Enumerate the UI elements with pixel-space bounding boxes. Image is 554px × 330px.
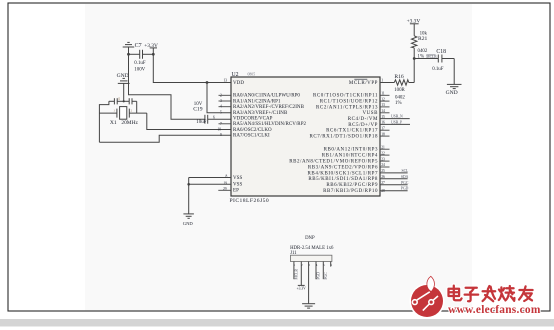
svg-text:7: 7: [220, 122, 222, 126]
svg-text:RA0/AN0/C1INA/ULPWU/RP0: RA0/AN0/C1INA/ULPWU/RP0: [233, 94, 300, 99]
svg-text:RA3/AN3/VREF+/C1INB: RA3/AN3/VREF+/C1INB: [233, 111, 288, 116]
svg-text:3: 3: [220, 99, 222, 103]
svg-text:RA5/AN4/SS1/HLVDIN/RCV/RP2: RA5/AN4/SS1/HLVDIN/RCV/RP2: [233, 122, 307, 127]
svg-text:18: 18: [381, 132, 385, 136]
svg-text:GND: GND: [446, 90, 458, 96]
svg-text:RC5/D+/VP: RC5/D+/VP: [348, 123, 378, 128]
svg-text:6: 6: [213, 115, 215, 119]
wire RC4 USB_N: [380, 118, 410, 120]
node MCLR junction: [413, 57, 416, 60]
bottom gray strip: [0, 319, 554, 327]
svg-text:10: 10: [218, 127, 222, 131]
wire node to C18: [414, 58, 438, 60]
svg-text:RC0/T1OSO/T1CKI/RP11: RC0/T1OSO/T1CKI/RP11: [313, 94, 378, 99]
svg-text:C19: C19: [193, 107, 203, 113]
ground (J11 pin3): [302, 304, 315, 308]
pin stubs right: [380, 95, 390, 167]
svg-text:MCLR: MCLR: [294, 269, 298, 280]
watermark logo circle: [411, 285, 443, 317]
wire left node jog: [99, 101, 109, 142]
power +3.3V (at C7): [150, 48, 157, 54]
ground (VSS): [183, 214, 194, 218]
central tint zone: [85, 4, 472, 311]
wire J11 pin1 MCLR: [293, 262, 295, 280]
svg-text:VDD: VDD: [233, 81, 244, 86]
svg-text:17: 17: [381, 126, 385, 130]
svg-text:PGD: PGD: [317, 272, 321, 280]
svg-text:RB1/AN10/RTCC/RP4: RB1/AN10/RTCC/RP4: [322, 154, 378, 159]
svg-text:SDA: SDA: [401, 175, 409, 179]
connector J11 pin numbers: [294, 263, 333, 267]
svg-text:RB6/KBI2/PGC/RP9: RB6/KBI2/PGC/RP9: [326, 183, 378, 188]
svg-text:2: 2: [220, 93, 222, 97]
svg-text:C7: C7: [135, 43, 142, 49]
capacitor C19: [205, 115, 231, 124]
svg-text:RB2/AN8/CTED1/VMO/REFO/RP5: RB2/AN8/CTED1/VMO/REFO/RP5: [289, 160, 378, 165]
svg-text:100R: 100R: [394, 88, 405, 93]
svg-text:DNP: DNP: [305, 236, 315, 241]
node junction dots C7: [127, 53, 155, 56]
svg-text:+3.3V: +3.3V: [407, 19, 421, 25]
wire VSS pins to ground: [189, 178, 231, 214]
svg-text:9: 9: [220, 133, 222, 137]
svg-text:5: 5: [220, 111, 222, 115]
svg-text:10uF: 10uF: [196, 120, 206, 125]
svg-text:RB7/KBI3/PGD/RP10: RB7/KBI3/PGD/RP10: [323, 189, 378, 194]
svg-text:RB4/KBI0/SCK1/SCL1/RP7: RB4/KBI0/SCK1/SCL1/RP7: [308, 171, 378, 176]
svg-text:RB0/AN12/INT0/RP3: RB0/AN12/INT0/RP3: [324, 148, 378, 153]
svg-text:24: 24: [381, 163, 385, 167]
wire RB6 PGC: [380, 184, 408, 186]
wire J11 pin6 stub: [330, 262, 332, 267]
resistor R16: [394, 80, 409, 85]
svg-text:EP: EP: [233, 189, 239, 194]
svg-text:100V: 100V: [134, 68, 145, 73]
wire VDD drop to pin row: [207, 83, 231, 113]
svg-text:PGD: PGD: [401, 187, 409, 191]
wire node down to R16: [413, 59, 415, 83]
svg-text:+3.3V: +3.3V: [144, 43, 158, 49]
node crystal caps midpoint: [123, 100, 125, 102]
wire MCLR pin to R16: [380, 82, 394, 84]
crystal X1: [99, 107, 146, 120]
capacitor C18: [438, 55, 454, 85]
node VSS junction: [187, 183, 190, 186]
wire J11 pin5 PGC: [322, 262, 324, 280]
svg-text:0.1uF: 0.1uF: [432, 67, 444, 72]
pin names right: [289, 81, 378, 194]
svg-text:14: 14: [381, 109, 385, 113]
power +3.3V (J11 pin2): [298, 284, 305, 286]
svg-text:RA7/OSC1/CLKI: RA7/OSC1/CLKI: [233, 134, 270, 139]
ground (top, above C7): [123, 42, 135, 54]
pin stubs left: [218, 95, 231, 190]
capacitor CL2 (crystal load right): [129, 98, 137, 104]
pin numbers right: [381, 78, 385, 192]
svg-text:HDR-2.54 MALE 1x6: HDR-2.54 MALE 1x6: [290, 246, 334, 251]
wire R21 to node: [413, 48, 415, 59]
wire R16 to node: [409, 82, 414, 84]
svg-text:VSS: VSS: [233, 176, 242, 181]
watermark logo leaf: [427, 276, 435, 291]
wire GND net from C7 to C19: [129, 54, 205, 119]
svg-text:13: 13: [381, 103, 385, 107]
watermark logo halo: [409, 283, 444, 318]
wire J11 pin4 PGD: [315, 262, 317, 280]
power +3.3V (at R21): [410, 24, 419, 36]
resistor R21: [412, 36, 417, 48]
svg-text:21: 21: [381, 145, 385, 149]
watermark text 电子发烧友: [449, 286, 533, 302]
svg-text:1%: 1%: [395, 101, 402, 106]
ground (below GND label): [118, 78, 130, 101]
svg-text:20MHz: 20MHz: [121, 120, 138, 126]
svg-text:RC1/T1OSI/UOE/RP12: RC1/T1OSI/UOE/RP12: [320, 100, 378, 105]
svg-text:SCL: SCL: [402, 169, 410, 173]
svg-text:RC4/D-/VM: RC4/D-/VM: [348, 117, 378, 122]
svg-text:RB3/AN9/CTED2/VPO/RP6: RB3/AN9/CTED2/VPO/RP6: [308, 165, 378, 170]
svg-text:VDDCORE/VCAP: VDDCORE/VCAP: [233, 117, 273, 122]
wire RB5 SDA: [380, 178, 408, 180]
svg-text:USB_N: USB_N: [391, 115, 403, 119]
ground (C18): [447, 84, 462, 88]
wire OSC2 to U2: [147, 113, 231, 129]
svg-text:GND: GND: [183, 221, 194, 226]
svg-text:PGC: PGC: [401, 181, 409, 185]
svg-text:13: 13: [224, 78, 228, 82]
svg-text:22: 22: [381, 151, 385, 155]
svg-text:1: 1: [381, 78, 383, 82]
svg-text:12: 12: [381, 97, 385, 101]
svg-text:23: 23: [381, 157, 385, 161]
svg-text:PGC: PGC: [324, 272, 328, 280]
wire J11 pin2: [300, 262, 302, 286]
svg-text:0402: 0402: [395, 95, 405, 100]
svg-text:RA6/OSC2/CLKO: RA6/OSC2/CLKO: [233, 128, 272, 133]
wire VDD net from C7 to U2: [153, 54, 231, 82]
svg-text:VSS: VSS: [233, 183, 242, 188]
svg-text:0402: 0402: [418, 49, 428, 54]
wire OSC1 to U2: [99, 135, 231, 142]
svg-text:USB_P: USB_P: [391, 120, 402, 124]
svg-text:R16: R16: [394, 74, 404, 80]
net label MCLR: [426, 54, 435, 56]
svg-text:MCLR/VPP: MCLR/VPP: [349, 81, 378, 86]
svg-text:RA1/AN1/C2INA/RP1: RA1/AN1/C2INA/RP1: [233, 99, 281, 104]
svg-text:11: 11: [381, 92, 385, 96]
capacitor C7: [129, 50, 154, 59]
pin numbers left: [213, 78, 228, 191]
svg-text:+3.3V: +3.3V: [297, 287, 307, 291]
svg-text:X1: X1: [110, 120, 117, 126]
svg-text:RC7/RX1/DT1/SDO1/RP18: RC7/RX1/DT1/SDO1/RP18: [309, 135, 378, 140]
svg-text:R21: R21: [418, 36, 428, 42]
wire J11 pin3: [308, 262, 310, 304]
svg-text:VUSB: VUSB: [362, 111, 378, 116]
svg-text:RC6/TX1/CK1/RP17: RC6/TX1/CK1/RP17: [326, 129, 378, 134]
svg-text:www.elecfans.com: www.elecfans.com: [448, 304, 541, 316]
svg-text:4: 4: [220, 105, 222, 109]
pin names left: [233, 81, 307, 194]
connector J11 body: [291, 255, 332, 261]
svg-text:C18: C18: [436, 49, 446, 55]
capacitor CL1 (crystal load left): [109, 98, 129, 104]
svg-text:U2: U2: [232, 72, 239, 78]
svg-text:RA2/AN2/VREF-/CVREF/C2INB: RA2/AN2/VREF-/CVREF/C2INB: [233, 105, 305, 110]
svg-text:PIC18LF26J50: PIC18LF26J50: [230, 198, 270, 204]
wire RB7 PGD: [380, 190, 408, 192]
wire RB4 SCL: [380, 172, 408, 174]
overline MCLR pin name: [354, 78, 367, 80]
svg-text:29: 29: [223, 187, 227, 191]
svg-text:0.1uF: 0.1uF: [134, 61, 146, 66]
svg-text:RC2/AN11/CTPLS/RP13: RC2/AN11/CTPLS/RP13: [316, 105, 378, 110]
wire right node vertical: [136, 101, 138, 113]
svg-text:RB5/KBI1/SDI1/SDA1/RP8: RB5/KBI1/SDI1/SDA1/RP8: [308, 177, 378, 182]
wire RC5 USB_P: [380, 123, 410, 125]
svg-text:0805: 0805: [248, 73, 256, 77]
watermark logo traces: [412, 292, 438, 311]
op chip U2 body: [231, 77, 380, 196]
node VDD junction: [206, 81, 209, 84]
